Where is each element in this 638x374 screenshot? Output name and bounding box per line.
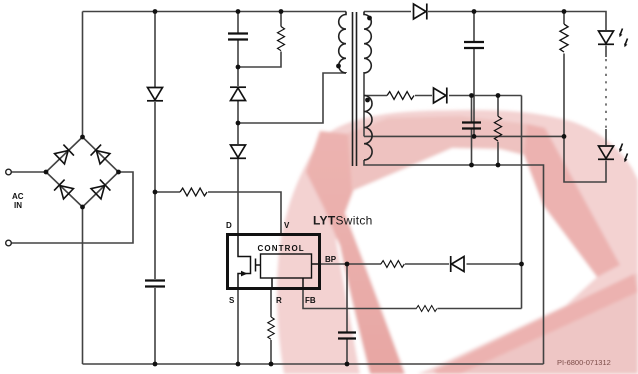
node bridge bottom [80, 205, 85, 210]
wire output cap branch [473, 12, 475, 137]
svg-text:PI-6800-071312: PI-6800-071312 [557, 358, 611, 367]
bridge rectifier diode top-right [91, 145, 111, 165]
AC input terminal lower [6, 240, 12, 246]
op-amp U1 LYTSwitch IC box [228, 235, 320, 289]
transformer T1 primary phase dot [336, 64, 341, 69]
diode clamp zener (cathode up) [230, 87, 246, 100]
node top rail x155 [153, 9, 158, 14]
AC input terminal upper [6, 169, 12, 175]
LED D2 [598, 146, 614, 159]
wire secondary bottom to output lower rail [363, 73, 365, 136]
capacitor bias filter [462, 123, 481, 129]
wire parallel clamp resistor branch [238, 12, 281, 68]
U1 CONTROL block [261, 254, 312, 278]
resistor BP series [381, 261, 405, 268]
wire output lower rail [364, 135, 564, 137]
wire bottom rail [83, 363, 544, 365]
node bias rail cap [469, 93, 474, 98]
wire main vertical bus [154, 12, 156, 365]
U1 internal MOSFET [238, 235, 251, 290]
resistor line-sense [180, 188, 207, 196]
wire output top rail [364, 12, 606, 31]
resistor output bleeder [560, 24, 568, 52]
svg-text:S: S [229, 296, 235, 305]
transformer T1 bias phase dot [365, 98, 370, 103]
transformer T1 bias winding [364, 96, 372, 160]
node BP line to bias vertical [519, 262, 524, 267]
svg-text:IN: IN [14, 201, 22, 210]
wire bias lower rail to bottom rail [364, 160, 544, 364]
wire LED string lower [605, 129, 607, 145]
wire bias resistor branch [497, 96, 499, 166]
LED D1 arrows [619, 29, 622, 38]
svg-text:BP: BP [325, 255, 337, 264]
transformer T1 secondary phase dot [367, 16, 372, 21]
wire bridge diamond edges [46, 137, 119, 207]
watermark: faint top band above white window [348, 116, 545, 191]
wire BP cap branch [346, 264, 348, 364]
svg-text:V: V [284, 221, 290, 230]
diode blocking (cathode down) [230, 145, 246, 158]
node clamp RC [236, 65, 241, 70]
bridge rectifier diode bottom-left [54, 180, 74, 200]
capacitor clamp [228, 34, 248, 40]
resistor R pin set [268, 317, 274, 339]
svg-text:CONTROL: CONTROL [258, 244, 305, 253]
node bridge top [80, 135, 85, 140]
node top rail x281 [279, 9, 284, 14]
wire top rail B+ [83, 11, 347, 13]
resistor bias series [387, 92, 414, 100]
diode BP feed (cathode left) [451, 256, 464, 272]
resistor bias load [494, 116, 501, 141]
node bottom rail x271 [269, 362, 274, 367]
wire AC line 2 [11, 172, 133, 243]
transformer T1 secondary winding [364, 12, 371, 74]
wire bridge bottom drop [82, 207, 84, 364]
node top rail x238 [236, 9, 241, 14]
wire BP line [320, 263, 522, 265]
diode main bus damper [147, 88, 163, 101]
capacitor BP [338, 333, 356, 339]
watermark: white inner region [336, 148, 597, 374]
watermark: light pink disc of PI logo [277, 110, 638, 374]
transformer T1 core [353, 12, 357, 166]
wire bias top rail [364, 95, 522, 97]
node bridge left [44, 170, 49, 175]
svg-text:R: R [276, 296, 282, 305]
capacitor bulk on main bus [145, 281, 165, 287]
node bottom rail x347 [345, 362, 350, 367]
diode bias rectifier [434, 88, 447, 104]
resistor FB [416, 305, 437, 311]
svg-text:FB: FB [305, 296, 316, 305]
svg-text:AC: AC [12, 192, 24, 201]
wire FB line [303, 289, 522, 309]
node bridge right [116, 170, 121, 175]
watermark: dark halo below bottom edge of white window [433, 274, 638, 374]
node clamp diode junction [236, 121, 241, 126]
wire clamp column [237, 12, 239, 235]
node output rail resistor [562, 9, 567, 14]
LED D1 [598, 31, 614, 44]
wire LED string dotted continuation [605, 59, 607, 129]
node output rail cap [472, 9, 477, 14]
wire bias feed vertical A [521, 96, 523, 309]
wire R pin branch [270, 289, 272, 364]
wire output load resistor branch [563, 12, 565, 137]
node bias lower rail cap [469, 163, 474, 168]
node bottom rail x155 [153, 362, 158, 367]
svg-text:D: D [226, 221, 232, 230]
diode output rectifier [414, 4, 427, 20]
node bias lower rail resistor [496, 163, 501, 168]
wire line resistor to V pin [155, 192, 281, 234]
node BP cap tap [345, 262, 350, 267]
wire AC line 1 [11, 171, 46, 173]
LED D2 arrows [619, 144, 622, 153]
node output lower rail resistor [562, 134, 567, 139]
U1 MOSFET gate bar [256, 259, 261, 272]
capacitor output filter [464, 42, 484, 48]
transformer T1 primary winding [339, 12, 346, 74]
watermark: faint top-right band [524, 124, 620, 277]
wire S pin branch [237, 289, 239, 364]
wire bias cap branch [471, 96, 473, 166]
node output lower rail cap [472, 134, 477, 139]
bridge rectifier diode top-left [54, 145, 74, 165]
wire LED return to lower rail [564, 136, 606, 182]
wire LED string upper [605, 46, 607, 58]
resistor clamp (parallel) [277, 27, 284, 51]
node bottom rail x238 [236, 362, 241, 367]
bridge rectifier diode bottom-right [91, 180, 111, 200]
wire left drop to bridge top [82, 12, 84, 138]
wire clamp node to primary bottom [238, 73, 346, 123]
watermark: mid pink swoosh stroke [306, 131, 405, 374]
node main bus / line resistor [153, 190, 158, 195]
svg-text:LYTSwitch: LYTSwitch [313, 214, 373, 228]
node bias rail resistor [496, 93, 501, 98]
watermark: mid pink bottom-right wedge [435, 273, 638, 374]
